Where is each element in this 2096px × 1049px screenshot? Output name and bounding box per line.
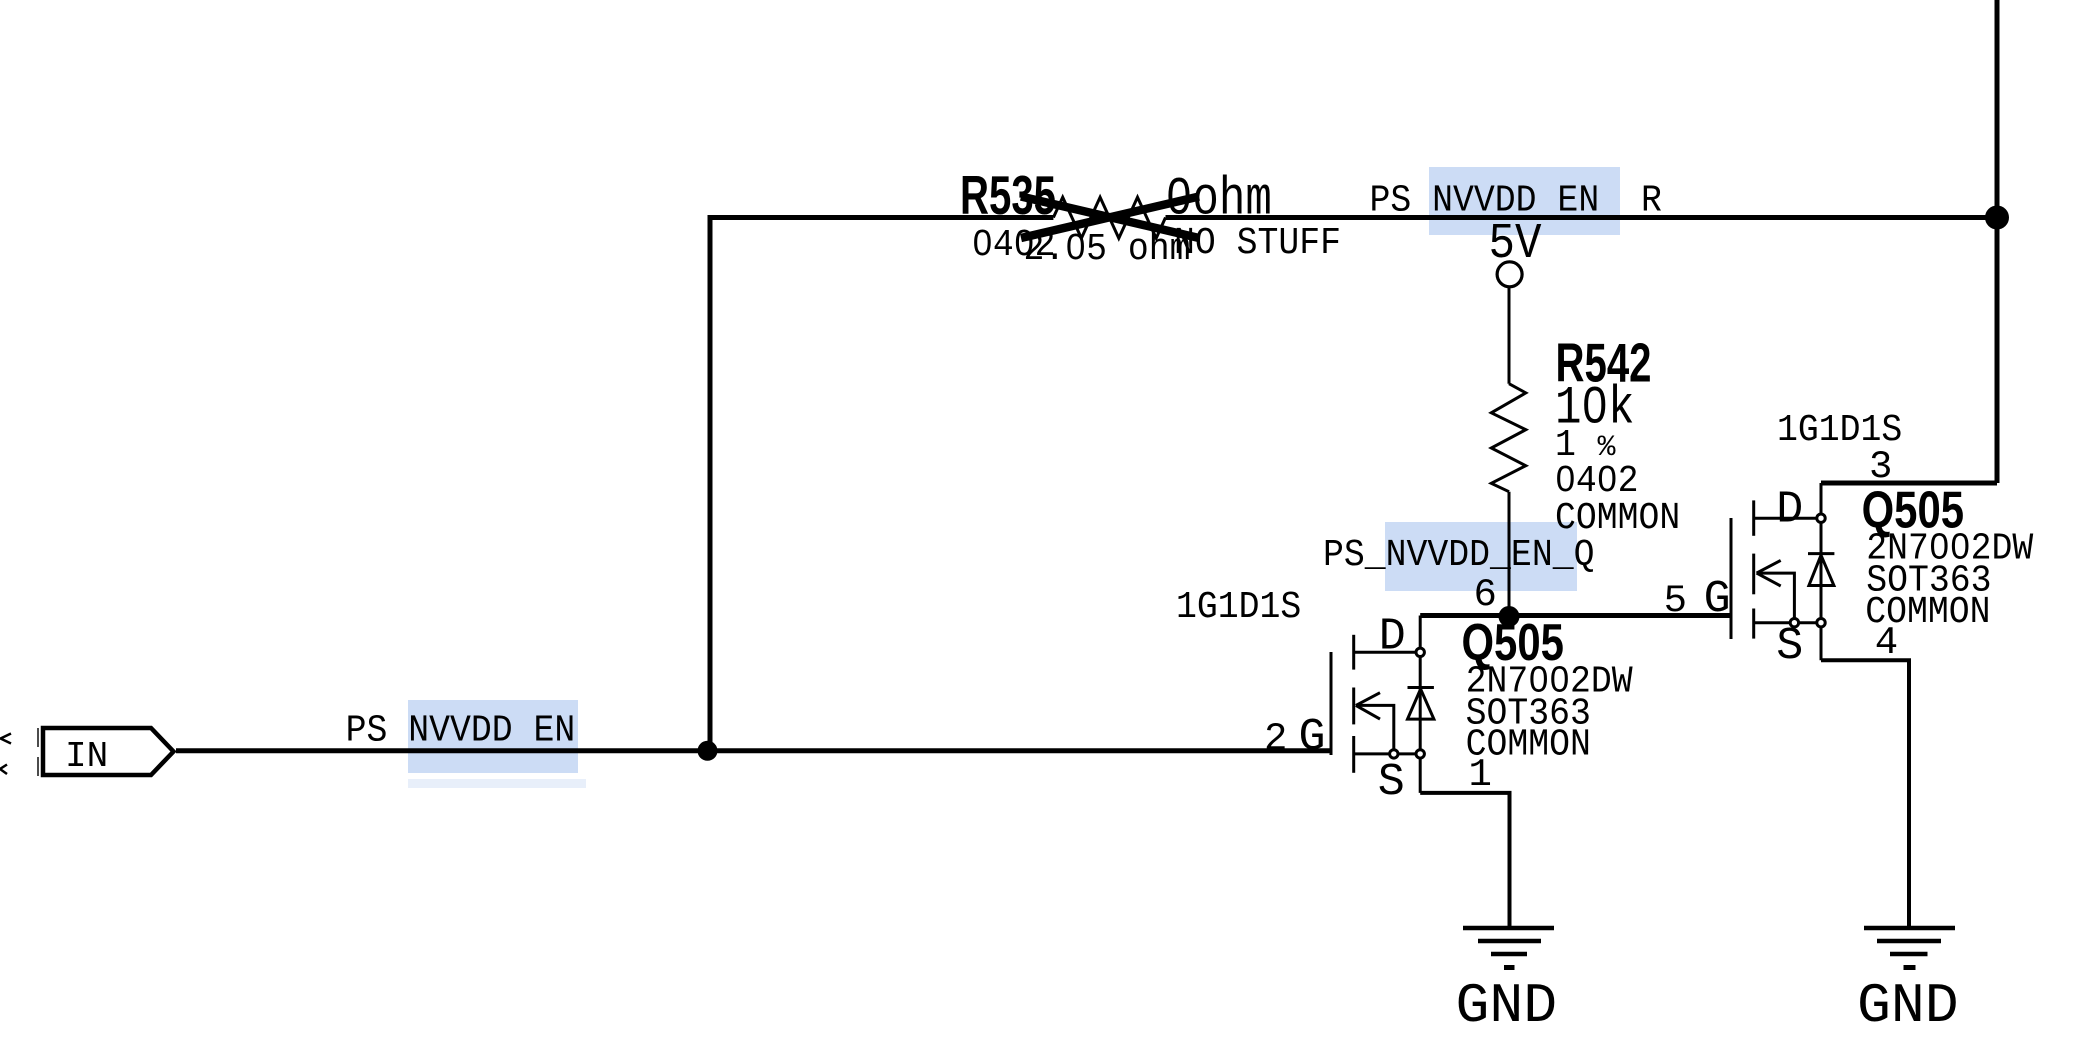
svg-text:4: 4 [1875,621,1898,665]
svg-text:5: 5 [1664,579,1687,623]
svg-text:G: G [1704,574,1731,625]
svg-text:1G1D1S: 1G1D1S [1176,586,1301,629]
svg-text:D: D [1379,612,1406,663]
svg-text:1: 1 [1469,753,1492,797]
svg-text:2: 2 [1264,717,1287,761]
svg-text:S: S [1776,621,1803,672]
svg-text:COMMON: COMMON [1555,497,1680,540]
svg-text:G: G [1299,712,1326,763]
svg-text:R535: R535 [960,165,1056,227]
svg-text:6: 6 [1474,573,1497,617]
svg-text:D: D [1776,485,1803,536]
svg-text:PS_NVVDD_EN_Q: PS_NVVDD_EN_Q [1323,534,1594,577]
svg-text:PS NVVDD EN: PS NVVDD EN [346,709,576,752]
svg-text:IN: IN [65,736,108,777]
svg-text:5V: 5V [1489,217,1543,273]
svg-text:GND: GND [1456,976,1558,1038]
svg-text:3: 3 [1869,445,1892,489]
svg-text:GND: GND [1857,976,1959,1038]
svg-text:S: S [1378,757,1405,808]
svg-text:PS NVVDD EN R: PS NVVDD EN R [1370,179,1662,222]
